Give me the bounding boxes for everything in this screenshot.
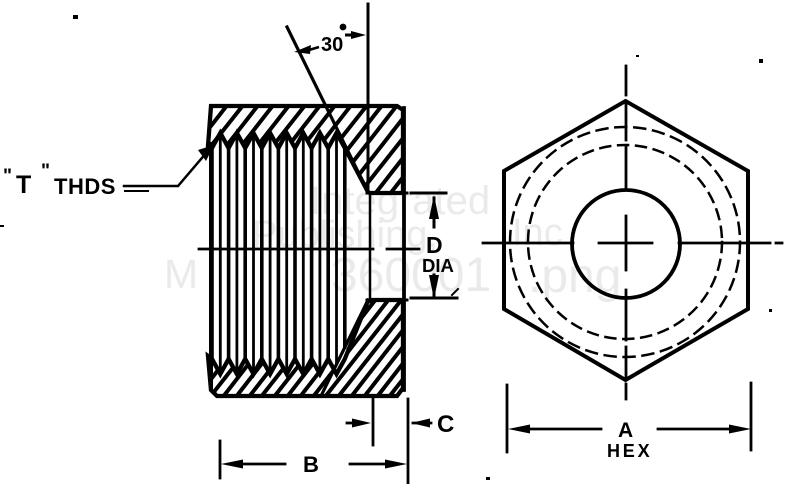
arrowheads [198, 31, 751, 469]
section view: bottom hatched wall outline [208, 300, 403, 396]
svg-text:HEX: HEX [607, 441, 652, 461]
bottom cone line [321, 300, 368, 396]
A right arrow [729, 425, 751, 434]
C extension lines [372, 398, 375, 445]
C right arrow [411, 419, 430, 428]
D bottom arrow [429, 275, 439, 299]
leader line THDS [124, 152, 207, 186]
svg-text:T: T [16, 171, 31, 199]
hex horizontal centerline [483, 242, 782, 245]
hex vertical centerline [625, 66, 628, 399]
svg-text:": " [3, 166, 12, 187]
thread bore lines [212, 150, 345, 357]
section view: top hatched wall outline [208, 106, 403, 193]
B left arrow [221, 460, 243, 469]
section centerline [199, 248, 373, 251]
C left arrow [352, 419, 371, 428]
dashed thread circle outer [510, 127, 740, 357]
svg-text:30: 30 [321, 34, 343, 56]
D dim stems [433, 198, 436, 227]
dashed thread circle inner [528, 145, 722, 339]
hexagon [504, 101, 748, 380]
30 left arrow [294, 45, 311, 54]
nut left face [209, 144, 213, 389]
hole D: inner face [369, 193, 372, 302]
svg-text:B: B [303, 452, 319, 477]
svg-text:A: A [618, 419, 633, 442]
svg-text:360001: 360001 [331, 249, 491, 302]
svg-text:C: C [437, 411, 454, 438]
svg-text:": " [41, 161, 50, 182]
A left arrow [508, 425, 530, 434]
section view: bottom wall hatching [117, 294, 483, 402]
hole D: top edge [367, 192, 407, 195]
B dim lines [238, 463, 285, 466]
chamfer 30 deg line [287, 27, 368, 192]
D top arrow [429, 195, 439, 219]
B right arrow [385, 460, 407, 469]
svg-text:DIA: DIA [422, 255, 454, 276]
svg-text:M: M [164, 251, 198, 297]
B extension line left [219, 441, 222, 478]
A dim lines [523, 428, 601, 431]
svg-text:Inc: Inc [512, 212, 563, 254]
section view: top wall hatching [123, 99, 480, 199]
D extension lines [411, 192, 446, 195]
30 deg extension line [367, 4, 370, 190]
30 right arrow [351, 31, 366, 39]
svg-text:THDS: THDS [54, 174, 116, 199]
A extension lines [506, 385, 509, 452]
nut right face [402, 108, 406, 390]
C dim tails [347, 422, 356, 425]
THDS leader arrow [198, 145, 214, 161]
hex hole circle [572, 190, 680, 298]
hole D: bottom edge [367, 299, 407, 302]
